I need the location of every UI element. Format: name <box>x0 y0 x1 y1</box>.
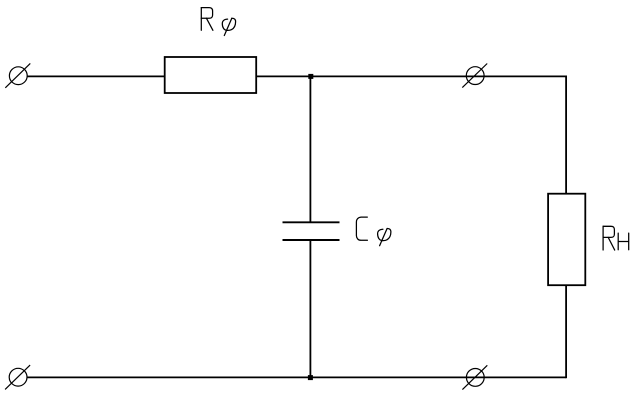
resistor R-phi label <box>201 8 235 36</box>
node junction top (C to rail) <box>308 74 313 79</box>
terminal (output, bottom-right) <box>462 365 487 389</box>
wire: top rail from R to right corner <box>256 75 566 77</box>
wire: capacitor upper lead <box>309 76 311 222</box>
wire: bottom rail <box>27 376 566 378</box>
wire: RH to bottom rail <box>565 285 567 378</box>
wire: right vertical drop to RH <box>565 76 567 194</box>
capacitor C-phi label <box>356 217 367 240</box>
terminal (output, top-right) <box>462 64 487 88</box>
terminal (input, top-left) <box>5 63 30 87</box>
resistor R-n label <box>603 226 615 250</box>
terminal (input, bottom-left) <box>5 365 30 389</box>
wire: top rail left segment (terminal to R) <box>27 75 164 77</box>
resistor R-n (load) body <box>548 194 585 286</box>
wire: capacitor lower lead <box>309 240 311 377</box>
capacitor C-phi plates <box>283 222 340 240</box>
resistor R-phi body <box>165 57 257 93</box>
node junction bottom (C to rail) <box>308 375 313 380</box>
